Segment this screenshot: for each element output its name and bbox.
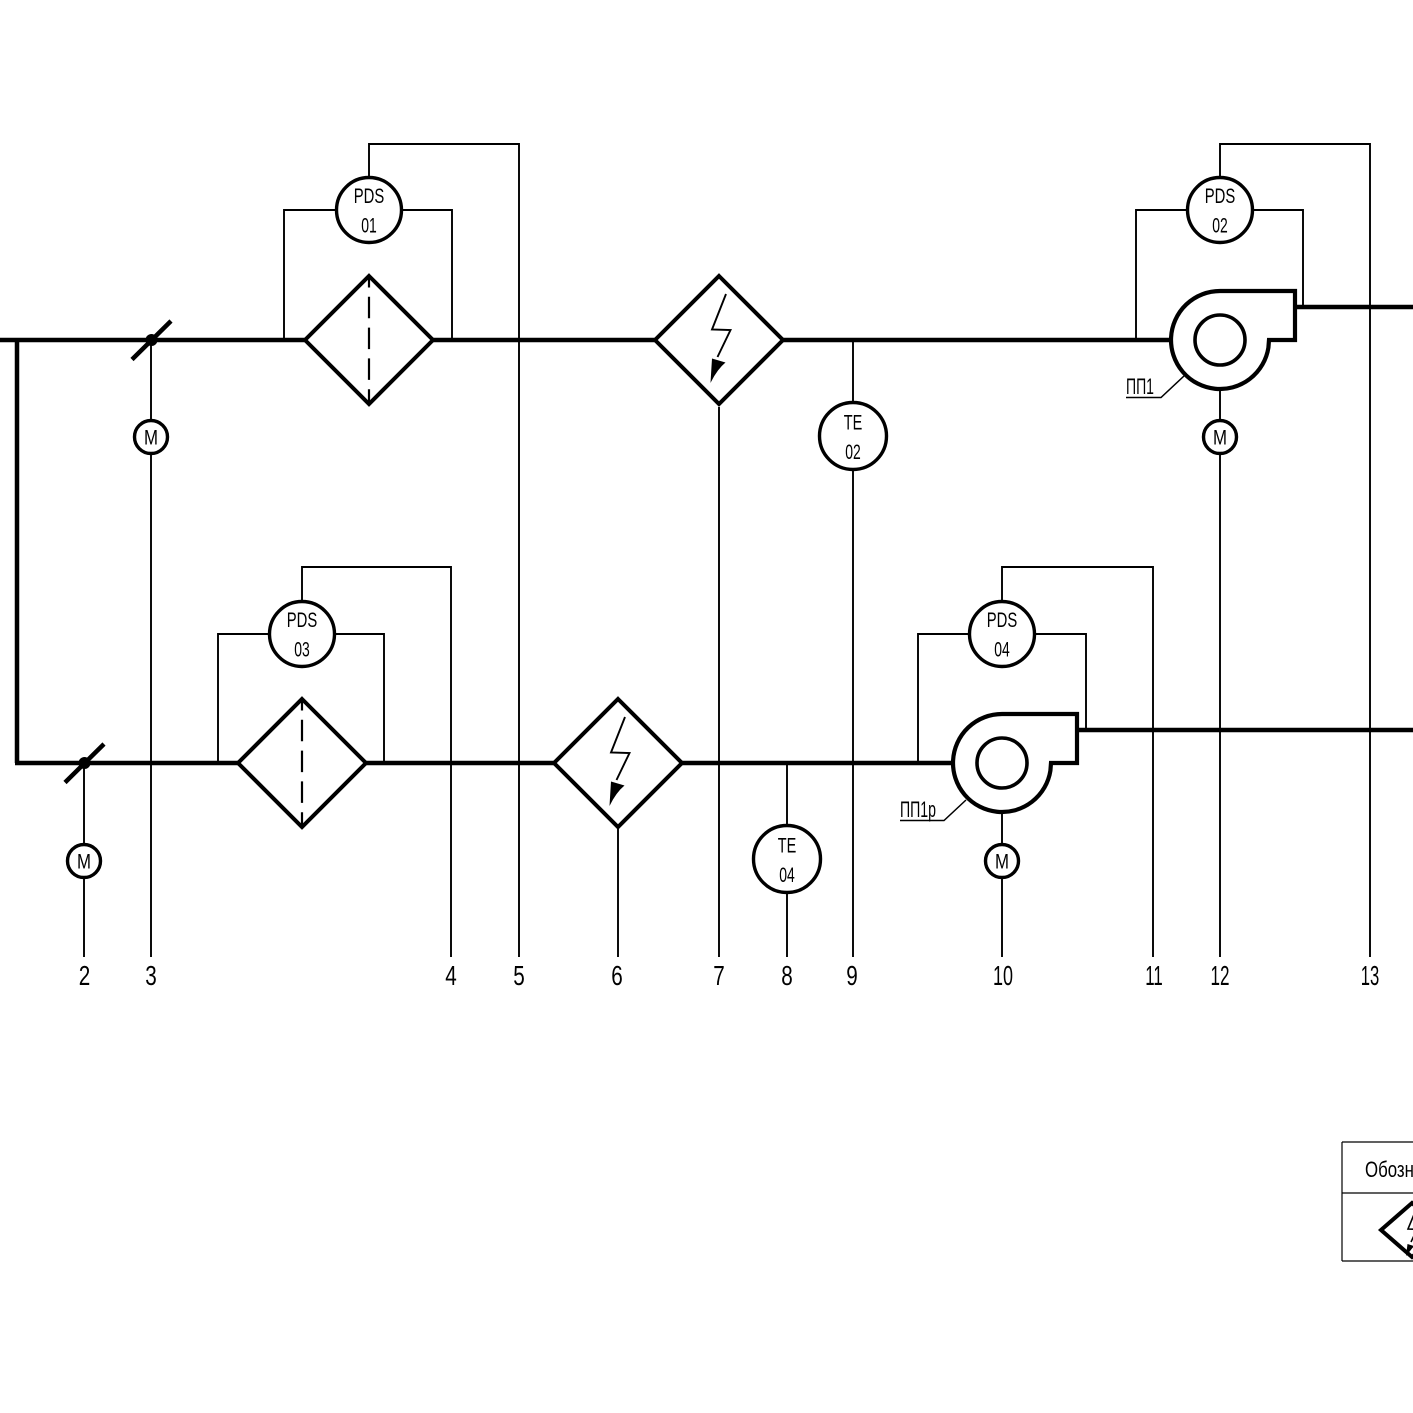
svg-text:6: 6: [611, 960, 623, 991]
wire fan PP1 motor and terminal line 12: [1219, 391, 1221, 957]
wire terminal line 6: [617, 829, 619, 957]
wire PDS02 signal to terminal 13: [1220, 144, 1370, 957]
wire supply duct line (net 1): [0, 338, 1171, 343]
label PP1r: [900, 797, 966, 822]
wire fan PP1r motor and terminal line 10: [1001, 814, 1003, 957]
fan PP1: [1171, 291, 1295, 389]
sensor PDS01: [337, 178, 402, 243]
wire PDS01 signal to terminal 5: [369, 144, 519, 957]
motor M1: [135, 421, 168, 454]
fan PP1r: [953, 714, 1077, 812]
svg-text:4: 4: [445, 960, 457, 991]
svg-text:01: 01: [361, 214, 377, 238]
svg-text:M: M: [995, 851, 1009, 874]
motor M4: [986, 845, 1019, 878]
svg-text:ПП1р: ПП1р: [900, 797, 936, 822]
svg-text:02: 02: [845, 440, 861, 464]
wire PDS04 signal to terminal 11: [1002, 567, 1153, 957]
svg-text:TE: TE: [844, 411, 863, 435]
sensor PDS03: [270, 602, 335, 667]
sensor TE04: [754, 826, 821, 893]
svg-text:M: M: [77, 851, 91, 874]
wire PDS03 signal to terminal 4: [302, 567, 451, 957]
svg-text:2: 2: [79, 960, 91, 991]
wire PDS03 impulse bracket: [218, 634, 384, 761]
wire terminal line 7: [718, 407, 720, 957]
wire TE02 tap and terminal line 9: [852, 342, 854, 957]
wire PDS01 impulse bracket: [284, 210, 452, 338]
motor M2: [68, 845, 101, 878]
svg-text:PDS: PDS: [354, 184, 385, 208]
svg-text:Обозначение: Обозначение: [1365, 1157, 1413, 1182]
svg-text:5: 5: [513, 960, 525, 991]
wire terminal line 3: [150, 345, 152, 957]
sensor TE02: [820, 403, 887, 470]
filter F2: [238, 699, 366, 827]
wire fan PP1r outlet duct: [1077, 728, 1413, 733]
svg-text:M: M: [144, 427, 158, 450]
svg-text:13: 13: [1361, 960, 1380, 991]
label PP1: [1126, 374, 1184, 399]
wire fan PP1 outlet duct: [1295, 305, 1413, 310]
svg-text:12: 12: [1211, 960, 1230, 991]
svg-text:TE: TE: [778, 834, 797, 858]
svg-text:11: 11: [1145, 960, 1163, 991]
motor M3: [1204, 421, 1237, 454]
heater E1: [655, 276, 783, 404]
svg-text:PDS: PDS: [1205, 184, 1236, 208]
wire PDS02 impulse bracket: [1136, 210, 1303, 338]
sensor PDS04: [970, 602, 1035, 667]
svg-text:ПП1: ПП1: [1126, 374, 1154, 399]
svg-text:9: 9: [846, 960, 858, 991]
svg-text:8: 8: [781, 960, 793, 991]
filter F1: [305, 276, 433, 404]
svg-text:7: 7: [713, 960, 725, 991]
legend heater symbol: [1381, 1203, 1413, 1257]
sensor PDS02: [1188, 178, 1253, 243]
svg-text:3: 3: [145, 960, 157, 991]
svg-text:04: 04: [994, 638, 1010, 662]
svg-text:02: 02: [1212, 214, 1228, 238]
wire outside-air riser: [15, 340, 20, 763]
wire return duct line (net 2): [15, 761, 951, 766]
heater E2: [554, 699, 682, 827]
svg-text:M: M: [1213, 427, 1227, 450]
svg-text:03: 03: [294, 638, 310, 662]
svg-text:10: 10: [993, 960, 1013, 991]
damper 1: [132, 321, 171, 360]
wire terminal line 2: [83, 768, 85, 957]
wire PDS04 impulse bracket: [918, 634, 1086, 761]
svg-text:PDS: PDS: [287, 608, 318, 632]
legend table: [1342, 1142, 1413, 1261]
svg-text:PDS: PDS: [987, 608, 1018, 632]
damper 2: [65, 744, 104, 783]
svg-text:04: 04: [779, 863, 795, 887]
wire TE04 tap and terminal line 8: [786, 765, 788, 957]
